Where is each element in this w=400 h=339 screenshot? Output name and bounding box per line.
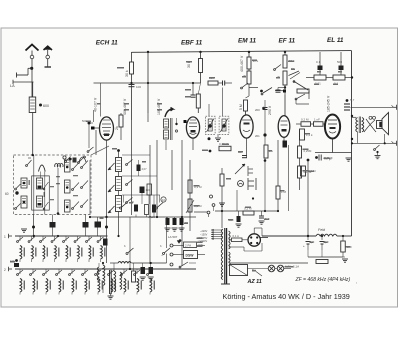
svg-text:100-467 V: 100-467 V bbox=[157, 98, 161, 115]
HT line to filter bbox=[262, 235, 352, 237]
IF transformer II feed wires bbox=[209, 83, 225, 116]
svg-text:600: 600 bbox=[43, 104, 49, 108]
coupling resistor 0.2M EL bbox=[301, 118, 311, 127]
output transformer bbox=[356, 117, 364, 144]
osc coil core wire bbox=[117, 149, 120, 236]
top switch right bbox=[78, 156, 86, 163]
tweeter switch bbox=[374, 145, 381, 159]
osc transformer core bbox=[110, 270, 112, 294]
resistor 20k x222 bbox=[220, 174, 231, 186]
osc capacitor k2 bbox=[140, 187, 151, 194]
top switch left bbox=[26, 158, 32, 166]
osc tuning arrow 1 bbox=[108, 163, 115, 170]
wave trap loop coil bbox=[55, 164, 63, 167]
osc switch 2 bbox=[126, 180, 133, 186]
row1 switch contacts bbox=[17, 237, 104, 242]
wire x182 long bbox=[181, 140, 183, 266]
tube ECH11 envelope bbox=[100, 117, 114, 140]
mains fuse box 2FA bbox=[184, 242, 197, 248]
svg-text:EBF 11: EBF 11 bbox=[181, 39, 203, 46]
electrolytic 8uF b bbox=[320, 236, 330, 250]
svg-text:185-245 V: 185-245 V bbox=[327, 95, 331, 112]
tube EF11 second electrodes bbox=[281, 121, 288, 141]
osc coil winding 1 bbox=[116, 158, 122, 172]
junction dot rail 1 bbox=[147, 51, 149, 53]
electrolytic 8uF a bbox=[303, 236, 315, 250]
speaker bbox=[377, 113, 389, 144]
IF transformer I primary bbox=[164, 119, 169, 128]
wave switch S4 bbox=[156, 195, 164, 209]
shield box diagonal tail bbox=[91, 146, 109, 155]
osc capacitor 1 bbox=[140, 263, 146, 280]
wire box to bus bbox=[32, 215, 35, 237]
tone resistor b bbox=[333, 75, 345, 86]
tube EF11 second envelope bbox=[278, 116, 290, 138]
dial lamp 1 bbox=[268, 265, 275, 272]
padder capacitor 2 bbox=[83, 215, 89, 237]
osc tuning arrow 3 bbox=[108, 206, 115, 213]
IF transformer II secondary can bbox=[219, 116, 229, 134]
switch EF top bbox=[274, 65, 281, 71]
top switch mid bbox=[65, 157, 72, 163]
tube EL11 envelope bbox=[325, 115, 340, 139]
tone cap 0.01 top right bbox=[316, 60, 323, 70]
wire y211 bus bbox=[215, 190, 278, 211]
resistor 30k EM bbox=[247, 57, 259, 69]
row1 end component bbox=[103, 239, 108, 246]
earth terminal stub bbox=[17, 68, 32, 77]
band filter coil L1 bbox=[21, 178, 27, 188]
capacitor 5nF screen bbox=[185, 83, 196, 98]
potentiometer 0.5M bbox=[186, 199, 202, 213]
wire cathode bbox=[120, 113, 122, 140]
value label smudges A bbox=[117, 60, 295, 91]
mains voltage labels bbox=[198, 237, 204, 247]
tone control pot bbox=[293, 81, 309, 93]
tone cap 500 top right bbox=[337, 60, 344, 70]
gram terminal circle bbox=[63, 156, 66, 159]
svg-text:Feld: Feld bbox=[318, 228, 326, 232]
wire EF mid bbox=[284, 85, 286, 95]
speaker top wire bbox=[351, 107, 394, 117]
coupling arch bbox=[39, 165, 46, 172]
oscillator section wires bbox=[94, 83, 109, 263]
svg-text:5 M: 5 M bbox=[239, 104, 243, 110]
pickup terminal circle 2 bbox=[210, 195, 213, 198]
rectifier HT wires bbox=[254, 228, 262, 236]
label AZ11 bbox=[247, 279, 262, 285]
svg-text:500: 500 bbox=[337, 60, 342, 64]
resistor 0.1M bottom left of EL bbox=[301, 166, 317, 176]
svg-text:,: , bbox=[356, 279, 357, 284]
junction dot rail 3 bbox=[248, 51, 250, 53]
band filter shield box bbox=[14, 155, 92, 215]
osc switch 3 bbox=[126, 198, 133, 204]
padder capacitor 1 bbox=[50, 215, 56, 237]
wire x190 seg bbox=[189, 160, 191, 231]
svg-text:2: 2 bbox=[4, 268, 6, 272]
value label smudges E bbox=[10, 202, 294, 272]
osc capacitor k6 bbox=[150, 205, 156, 220]
resistor 30k screen bbox=[196, 83, 200, 113]
mains terminal 3 bbox=[170, 263, 173, 266]
capacitor to EBF grid bbox=[218, 81, 232, 86]
svg-text:1 nF: 1 nF bbox=[314, 118, 320, 122]
svg-text:400-467 V: 400-467 V bbox=[240, 55, 244, 72]
svg-text:Körting - Amatus 40 WK / D - J: Körting - Amatus 40 WK / D - Jahr 1939 bbox=[223, 292, 350, 301]
IF frequency note bbox=[295, 277, 358, 284]
value label smudges C bbox=[194, 144, 309, 221]
filter bottom wire bbox=[308, 250, 343, 257]
band filter inner labels bbox=[29, 175, 79, 200]
wire x149 down bbox=[147, 113, 149, 122]
wire EBF plate bbox=[200, 52, 202, 83]
resistor below EL bbox=[300, 129, 314, 140]
tube label EF11 bbox=[279, 38, 296, 45]
svg-text:LA: LA bbox=[10, 84, 15, 88]
osc switch 1 bbox=[126, 160, 133, 166]
band filter coil L4 bbox=[37, 196, 43, 207]
mains label LA507 bbox=[168, 235, 181, 244]
osc capacitor k4 bbox=[131, 200, 138, 212]
wire EM tube top bbox=[246, 107, 265, 115]
junction dot rail 4 bbox=[284, 51, 286, 53]
IF transformer II primary can bbox=[206, 116, 216, 140]
wire x222 down bbox=[221, 168, 223, 228]
wire EF down bbox=[284, 95, 286, 116]
IF transformer I core bbox=[166, 118, 172, 150]
circled 10 marker bbox=[161, 197, 166, 202]
osc ground bbox=[108, 293, 114, 299]
row2 tuning coils bbox=[20, 269, 155, 295]
mains switch contact bbox=[179, 262, 196, 268]
variable cap 30pF bbox=[289, 67, 301, 79]
osc coil winding 3 bbox=[116, 196, 122, 212]
wave switch S2 bbox=[160, 217, 170, 255]
resistor 30k anode ECH11 bbox=[125, 62, 134, 77]
resistor 0.1M EM bbox=[239, 90, 249, 111]
osc coil winding 2 bbox=[116, 177, 122, 191]
box bottom dot bbox=[57, 212, 60, 215]
resistor 0.2M horizontal bbox=[243, 197, 254, 215]
tube EM11 electrodes bbox=[242, 120, 251, 158]
wire x308 down bbox=[307, 159, 310, 236]
row1 tuning coils bbox=[20, 236, 106, 262]
osc capacitor k1 bbox=[137, 160, 148, 171]
antenna A1 arrow bbox=[26, 45, 39, 51]
IF transformer I tuning arrow bbox=[165, 108, 173, 118]
osc resistor k3 bbox=[147, 184, 152, 195]
osc capacitor 2 bbox=[148, 263, 154, 280]
IF transformer I secondary bbox=[164, 130, 169, 139]
transformer heater winding bbox=[229, 252, 231, 266]
IF transformer I trimmers bbox=[175, 118, 177, 132]
row1 left terminal caps bbox=[10, 259, 19, 267]
terminal circle pickup bbox=[194, 204, 215, 214]
AZ11 cathode wire bbox=[260, 236, 316, 238]
osc resistor bbox=[132, 263, 136, 282]
B+ right rail bbox=[351, 51, 353, 236]
rotated label 100-467V bbox=[157, 98, 161, 115]
grid cap ECH11 bbox=[88, 121, 100, 130]
rotated label 40-107V bbox=[94, 97, 98, 112]
svg-text:2k: 2k bbox=[115, 126, 119, 130]
svg-text:ECH 11: ECH 11 bbox=[96, 39, 118, 46]
svg-text:110: 110 bbox=[146, 188, 151, 192]
lamp wires bbox=[248, 268, 292, 270]
resistor 30k decoupling bbox=[208, 76, 218, 85]
capacitor 201 inter bbox=[255, 133, 267, 138]
band filter coil L2 bbox=[21, 196, 27, 208]
wire to EL grid bbox=[296, 123, 326, 125]
tube EBF11 envelope bbox=[186, 117, 199, 138]
transformer HT winding bbox=[229, 231, 231, 249]
svg-text:+: + bbox=[303, 244, 305, 248]
band filter switch S-L2 bbox=[15, 204, 21, 210]
resistor 2k EM bbox=[243, 69, 251, 84]
capacitor 200 inter bbox=[255, 108, 268, 113]
svg-text:ZF = 468 kHz (4P4 kHz): ZF = 468 kHz (4P4 kHz) bbox=[295, 277, 351, 283]
wire EF plate bbox=[284, 52, 286, 55]
lamp rating label bbox=[285, 265, 299, 269]
mains terminal 2 bbox=[161, 253, 173, 258]
transformer primary taps bbox=[211, 229, 223, 240]
wire EM11 plate bbox=[248, 52, 250, 57]
transformer secondary to az11 lower bbox=[229, 243, 262, 251]
band filter inner frame bbox=[32, 176, 50, 210]
osc transformer left winding bbox=[97, 263, 105, 293]
svg-text:EL 11: EL 11 bbox=[327, 37, 344, 44]
wire x278 down bbox=[277, 140, 279, 211]
external speaker terminal bottom bbox=[392, 141, 397, 146]
junction dots set 1 bbox=[33, 82, 195, 237]
coupling capacitor EL bbox=[314, 118, 324, 127]
junction dot antenna bus bbox=[30, 67, 33, 70]
grid cap EBF11 bbox=[184, 120, 187, 123]
mains wires bbox=[173, 246, 205, 255]
tone switch bbox=[295, 94, 305, 104]
IF ground stub bbox=[215, 134, 221, 141]
screen grid rail bbox=[94, 82, 201, 84]
antenna A2 lead bbox=[45, 50, 52, 67]
tube label ECH11 bbox=[96, 39, 118, 46]
rotated label 400-467V b bbox=[240, 55, 244, 72]
osc transformer right winding bbox=[114, 263, 122, 292]
band filter internal wires bbox=[34, 155, 90, 215]
transformer lamp winding bbox=[221, 266, 223, 280]
dot 100 node bbox=[202, 150, 211, 153]
value label smudges B bbox=[86, 103, 162, 163]
wire x208 drop bbox=[208, 214, 210, 218]
filter ground bbox=[342, 257, 348, 262]
svg-text:LA 507: LA 507 bbox=[168, 235, 178, 239]
svg-text:30 k: 30 k bbox=[125, 70, 129, 77]
resistor vert mid EM bbox=[264, 145, 274, 158]
wire x157 down bbox=[156, 140, 158, 218]
junction dots set 2 bbox=[221, 76, 353, 237]
wire tone to grid bbox=[296, 91, 309, 104]
tap labels bbox=[200, 230, 208, 243]
EM switch row bbox=[249, 88, 286, 95]
lamp stub bbox=[252, 268, 262, 276]
padder capacitor 3 bbox=[95, 216, 104, 236]
svg-text:EM 11: EM 11 bbox=[238, 38, 256, 45]
antenna A1 coupling capacitor bbox=[30, 55, 34, 59]
antenna A1 lead wire bbox=[31, 51, 33, 98]
capacitor 100 mid bbox=[129, 85, 142, 90]
speaker bottom wire bbox=[351, 142, 394, 144]
osc cluster wires bbox=[122, 155, 160, 217]
svg-text:400-467 V: 400-467 V bbox=[123, 98, 127, 115]
osc section coil A bbox=[65, 160, 89, 172]
wire x150 down2 bbox=[149, 145, 151, 264]
volume control resistor 0.25M bbox=[219, 142, 231, 151]
external speaker terminal top bbox=[392, 105, 397, 110]
resistor 30k EBF plate bbox=[187, 59, 203, 73]
AVC capacitor 1 bbox=[165, 217, 171, 231]
svg-text:290 V: 290 V bbox=[268, 105, 272, 115]
label LA terminal bbox=[10, 80, 34, 88]
svg-text:1: 1 bbox=[4, 235, 6, 239]
field coil bbox=[316, 234, 337, 236]
svg-text:200: 200 bbox=[255, 108, 260, 112]
resistor 1M EF lower bbox=[276, 186, 287, 199]
resistor 2k EF bbox=[277, 71, 287, 85]
svg-text:2 FA: 2 FA bbox=[185, 243, 191, 247]
tube ECH11 electrodes bbox=[102, 120, 111, 150]
wire grid line ECH11 bbox=[147, 52, 149, 113]
tube EL11 electrodes bbox=[328, 120, 337, 153]
gram coupling arch bbox=[73, 157, 87, 163]
capacitor 30F bottom bbox=[229, 211, 242, 227]
junction dots set 3 bbox=[32, 154, 184, 270]
humbucking coil bbox=[364, 116, 376, 132]
wire anode ECH11 bbox=[131, 52, 133, 120]
wire x172 seg bbox=[171, 150, 173, 190]
svg-text:100: 100 bbox=[136, 85, 141, 89]
wire EM mid bbox=[248, 84, 250, 90]
AVC capacitor 2 bbox=[172, 217, 178, 231]
wave switch S1 bbox=[124, 217, 134, 255]
volume potentiometer arrow bbox=[235, 164, 245, 174]
row1 bus wire bbox=[4, 234, 108, 239]
mixer grid dot 500 bbox=[82, 119, 91, 148]
AVC bus wire bbox=[90, 216, 196, 218]
svg-text:AZ 11: AZ 11 bbox=[247, 279, 262, 285]
ground left column bbox=[21, 229, 27, 232]
tube label EM11 bbox=[238, 38, 256, 45]
ground x222 bbox=[219, 203, 225, 206]
rotated label 400-467V a bbox=[123, 98, 127, 115]
caption bbox=[223, 292, 350, 301]
resistor right EF b bbox=[298, 166, 312, 178]
svg-text:0,1 A: 0,1 A bbox=[233, 234, 240, 238]
bleeder resistor 300 bbox=[341, 236, 352, 257]
dial lamp 2 bbox=[277, 265, 284, 272]
antenna coil 600 ohm bbox=[29, 97, 49, 113]
resistor cathode ECH11 bbox=[115, 115, 123, 130]
svg-text:0,2 M: 0,2 M bbox=[301, 118, 309, 122]
padder coil horizontal bbox=[110, 254, 167, 270]
band filter coil L3 bbox=[37, 178, 43, 189]
rectifier tube AZ11 bbox=[248, 234, 260, 246]
switch arm magic eye bbox=[241, 83, 248, 89]
tube EBF11 electrodes bbox=[189, 120, 197, 150]
filter resistor bottom bbox=[316, 260, 328, 264]
AVC capacitor 3 bbox=[179, 217, 189, 231]
wire x300 bbox=[299, 130, 301, 190]
dial lamp housing bbox=[230, 265, 248, 276]
junction dot rail 2 bbox=[199, 51, 201, 53]
capacitor 5nF bottom bbox=[259, 211, 271, 224]
fuse 0.1A bbox=[229, 234, 248, 242]
tube label EL11 bbox=[327, 37, 344, 44]
tube label EBF11 bbox=[181, 39, 203, 46]
resistor 0.3M bbox=[188, 180, 202, 193]
pickup symbol circle bbox=[238, 181, 244, 187]
EF cathode capacitor bbox=[283, 141, 288, 148]
mains switch box DSW bbox=[184, 251, 198, 259]
wave switch S3 bbox=[120, 195, 128, 209]
grid choke bbox=[344, 98, 355, 110]
band filter switch S-L1 bbox=[15, 184, 21, 190]
svg-text:40-107 V: 40-107 V bbox=[94, 97, 98, 112]
volume pot area wires bbox=[131, 120, 133, 215]
antenna A2 arrow bbox=[44, 46, 53, 50]
resistor 50k EF bbox=[283, 55, 295, 68]
svg-text:4,07: 4,07 bbox=[142, 167, 148, 171]
rotated label 290V bbox=[268, 105, 272, 115]
row2 bus wire bbox=[4, 267, 196, 272]
resistor right EF a bbox=[298, 146, 312, 158]
svg-text:60: 60 bbox=[5, 192, 9, 196]
row2 switch contacts bbox=[17, 270, 153, 275]
svg-text:201: 201 bbox=[255, 134, 260, 138]
wire antenna coil to band filter bbox=[32, 82, 34, 155]
band filter trimmer T3 bbox=[43, 182, 48, 190]
heater run wire bbox=[230, 262, 308, 264]
value label smudges D bbox=[305, 71, 351, 248]
antenna A2 capacitor bbox=[46, 55, 50, 59]
osc tuning arrow 2 bbox=[108, 185, 115, 192]
osc section coil B bbox=[65, 180, 89, 193]
mains terminal 1 bbox=[170, 244, 173, 247]
svg-text:EF 11: EF 11 bbox=[279, 38, 296, 45]
rotated label 185-245V bbox=[327, 95, 331, 112]
transformer primary winding bbox=[221, 229, 223, 266]
band filter trimmer T4 bbox=[43, 202, 48, 210]
osc resistor k5 bbox=[145, 205, 149, 215]
capacitor EF grid bbox=[276, 88, 286, 93]
tone caps F symbols bbox=[248, 166, 256, 190]
field coil label bbox=[318, 228, 326, 232]
svg-text:N,7: N,7 bbox=[350, 98, 355, 102]
wire EL cathode bbox=[315, 153, 352, 162]
capacitor 30F mid bbox=[238, 150, 247, 158]
tone resistor a bbox=[314, 75, 326, 86]
osc section coil C bbox=[65, 200, 89, 213]
capacitor 0.7uF bbox=[315, 155, 333, 161]
B+ supply rail top bbox=[132, 51, 352, 53]
shield entry switch bbox=[87, 147, 93, 152]
EF cathode drop wire bbox=[288, 145, 290, 211]
band filter node dot bbox=[5, 191, 19, 196]
mains transformer core bbox=[221, 228, 230, 284]
coupling column wire bbox=[264, 100, 267, 211]
tube EM11 envelope bbox=[240, 115, 253, 138]
tone network wires bbox=[306, 52, 352, 78]
svg-text:DSW: DSW bbox=[186, 254, 195, 258]
